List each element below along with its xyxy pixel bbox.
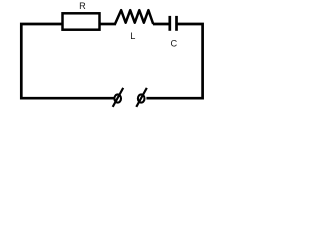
svg-text:L: L xyxy=(130,31,135,41)
svg-text:C: C xyxy=(170,39,177,49)
svg-text:R: R xyxy=(79,1,86,11)
